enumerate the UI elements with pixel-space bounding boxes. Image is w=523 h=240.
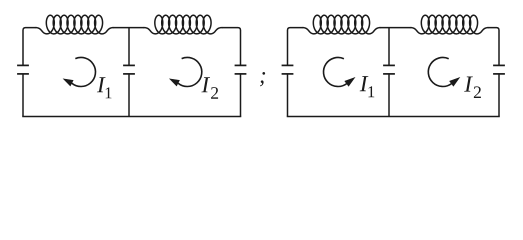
inductor L2 coil (circuit 1) [144, 15, 222, 34]
capacitor C-left (circuit 1) [17, 65, 29, 74]
wire: middle branch above capacitor (circuit 1) [128, 28, 130, 66]
wire: right vertical below capacitor (circuit 2) [498, 74, 500, 117]
separator semicolon [260, 72, 265, 86]
wire: bottom rail (circuit 1) [22, 116, 241, 118]
label subscript 2 (circuit 1 loop 2) [211, 87, 218, 99]
mesh current arrow I2 (clockwise, circuit 1) [170, 57, 202, 86]
wire: top-left corner + left vertical to capacitor (circuit 1) [23, 28, 35, 66]
label subscript 1 (circuit 2 loop 1) [368, 86, 374, 97]
wire: top middle segment (circuit 2) [380, 27, 410, 29]
label I (circuit 1 loop 2) [201, 77, 210, 92]
capacitor C-middle (circuit 2) [383, 65, 395, 74]
wire: middle branch above capacitor (circuit 2) [388, 28, 390, 66]
label I (circuit 1 loop 1) [97, 77, 106, 92]
inductor L2 coil (circuit 2) [410, 15, 488, 34]
capacitor C-right (circuit 2) [493, 65, 505, 74]
label I (circuit 2 loop 2) [464, 77, 473, 92]
wire: left vertical below capacitor (circuit 1) [22, 74, 24, 117]
wire: bottom rail (circuit 2) [287, 116, 500, 118]
mesh current arrow I2 (counter-clockwise, circuit 2) [428, 57, 459, 86]
label subscript 2 (circuit 2 loop 2) [474, 86, 481, 98]
label subscript 1 (circuit 1 loop 1) [106, 87, 112, 98]
label I (circuit 2 loop 1) [360, 76, 369, 91]
capacitor C-left (circuit 2) [282, 65, 294, 74]
inductor L1 coil (circuit 2) [302, 15, 380, 34]
wire: middle branch below capacitor (circuit 2) [388, 74, 390, 117]
capacitor C-middle (circuit 1) [123, 65, 135, 74]
wire: left vertical below capacitor (circuit 2) [287, 74, 289, 117]
mesh current arrow I1 (counter-clockwise, circuit 2) [324, 57, 355, 86]
wire: top-right corner + right vertical to capacitor (circuit 2) [488, 28, 499, 66]
inductor L1 coil (circuit 1) [35, 15, 113, 34]
wire: top-right corner + right vertical to capacitor (circuit 1) [222, 28, 241, 66]
capacitor C-right (circuit 1) [235, 65, 247, 74]
wire: top-left corner + left vertical to capacitor (circuit 2) [288, 28, 303, 66]
wire: middle branch below capacitor (circuit 1) [128, 74, 130, 117]
wire: right vertical below capacitor (circuit 1) [240, 74, 242, 117]
mesh current arrow I1 (clockwise, circuit 1) [63, 57, 95, 86]
wire: top middle segment (circuit 1) [113, 27, 144, 29]
